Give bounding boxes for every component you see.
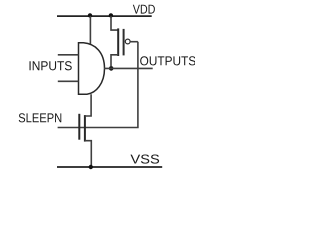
wire input 1 — [58, 54, 79, 56]
wire VDD rail — [57, 15, 152, 17]
wire AND gate virtual ground to NMOS drain — [85, 94, 91, 116]
wire VDD rail to AND gate top — [89, 16, 91, 44]
label INPUTS — [30, 61, 72, 70]
wire SLEEPN net to PMOS gate — [58, 42, 138, 128]
wire input 2 — [58, 80, 79, 82]
label OUTPUTS — [140, 56, 196, 65]
label SLEEPN — [19, 113, 62, 122]
transistor Q1 PMOS channel bar — [117, 28, 119, 56]
transistor Q1 PMOS gate bubble — [125, 39, 130, 44]
label VSS — [130, 154, 159, 163]
transistor Q2 NMOS channel bar — [84, 115, 86, 142]
wire NMOS source to VSS — [85, 141, 91, 167]
transistor Q1 PMOS drain lead to output — [111, 55, 118, 66]
node VDD junction to PMOS source — [109, 13, 113, 17]
label VDD — [133, 5, 155, 14]
and-gate U1 — [79, 43, 105, 94]
transistor Q2 NMOS gate bar — [78, 114, 80, 140]
wire VSS rail — [57, 166, 162, 168]
transistor Q1 PMOS source lead from VDD — [111, 16, 118, 30]
node VDD junction to gate supply — [88, 13, 92, 17]
transistor Q1 PMOS gate bar — [123, 29, 125, 56]
wire PMOS gate lead — [130, 41, 138, 43]
node VSS junction — [89, 165, 93, 169]
node output junction — [109, 66, 114, 71]
wire OUTPUTS — [104, 67, 153, 69]
